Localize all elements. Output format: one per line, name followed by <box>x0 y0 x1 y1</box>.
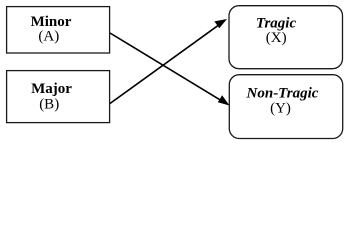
box Minor (A) <box>7 7 110 53</box>
box Major (B) <box>7 71 110 123</box>
svg-text:Minor: Minor <box>31 14 72 30</box>
svg-text:(B): (B) <box>39 97 59 113</box>
box Tragic (X) <box>229 6 343 69</box>
svg-text:(A): (A) <box>38 29 59 45</box>
svg-text:Tragic: Tragic <box>256 15 297 31</box>
svg-text:(Y): (Y) <box>270 100 291 116</box>
box Non-Tragic (Y) <box>229 75 342 139</box>
svg-text:Non-Tragic: Non-Tragic <box>246 86 319 102</box>
svg-text:(X): (X) <box>266 30 287 46</box>
arrow Major to Tragic <box>110 19 227 104</box>
arrow Minor to Non-Tragic <box>110 33 230 106</box>
svg-text:Major: Major <box>31 81 72 97</box>
